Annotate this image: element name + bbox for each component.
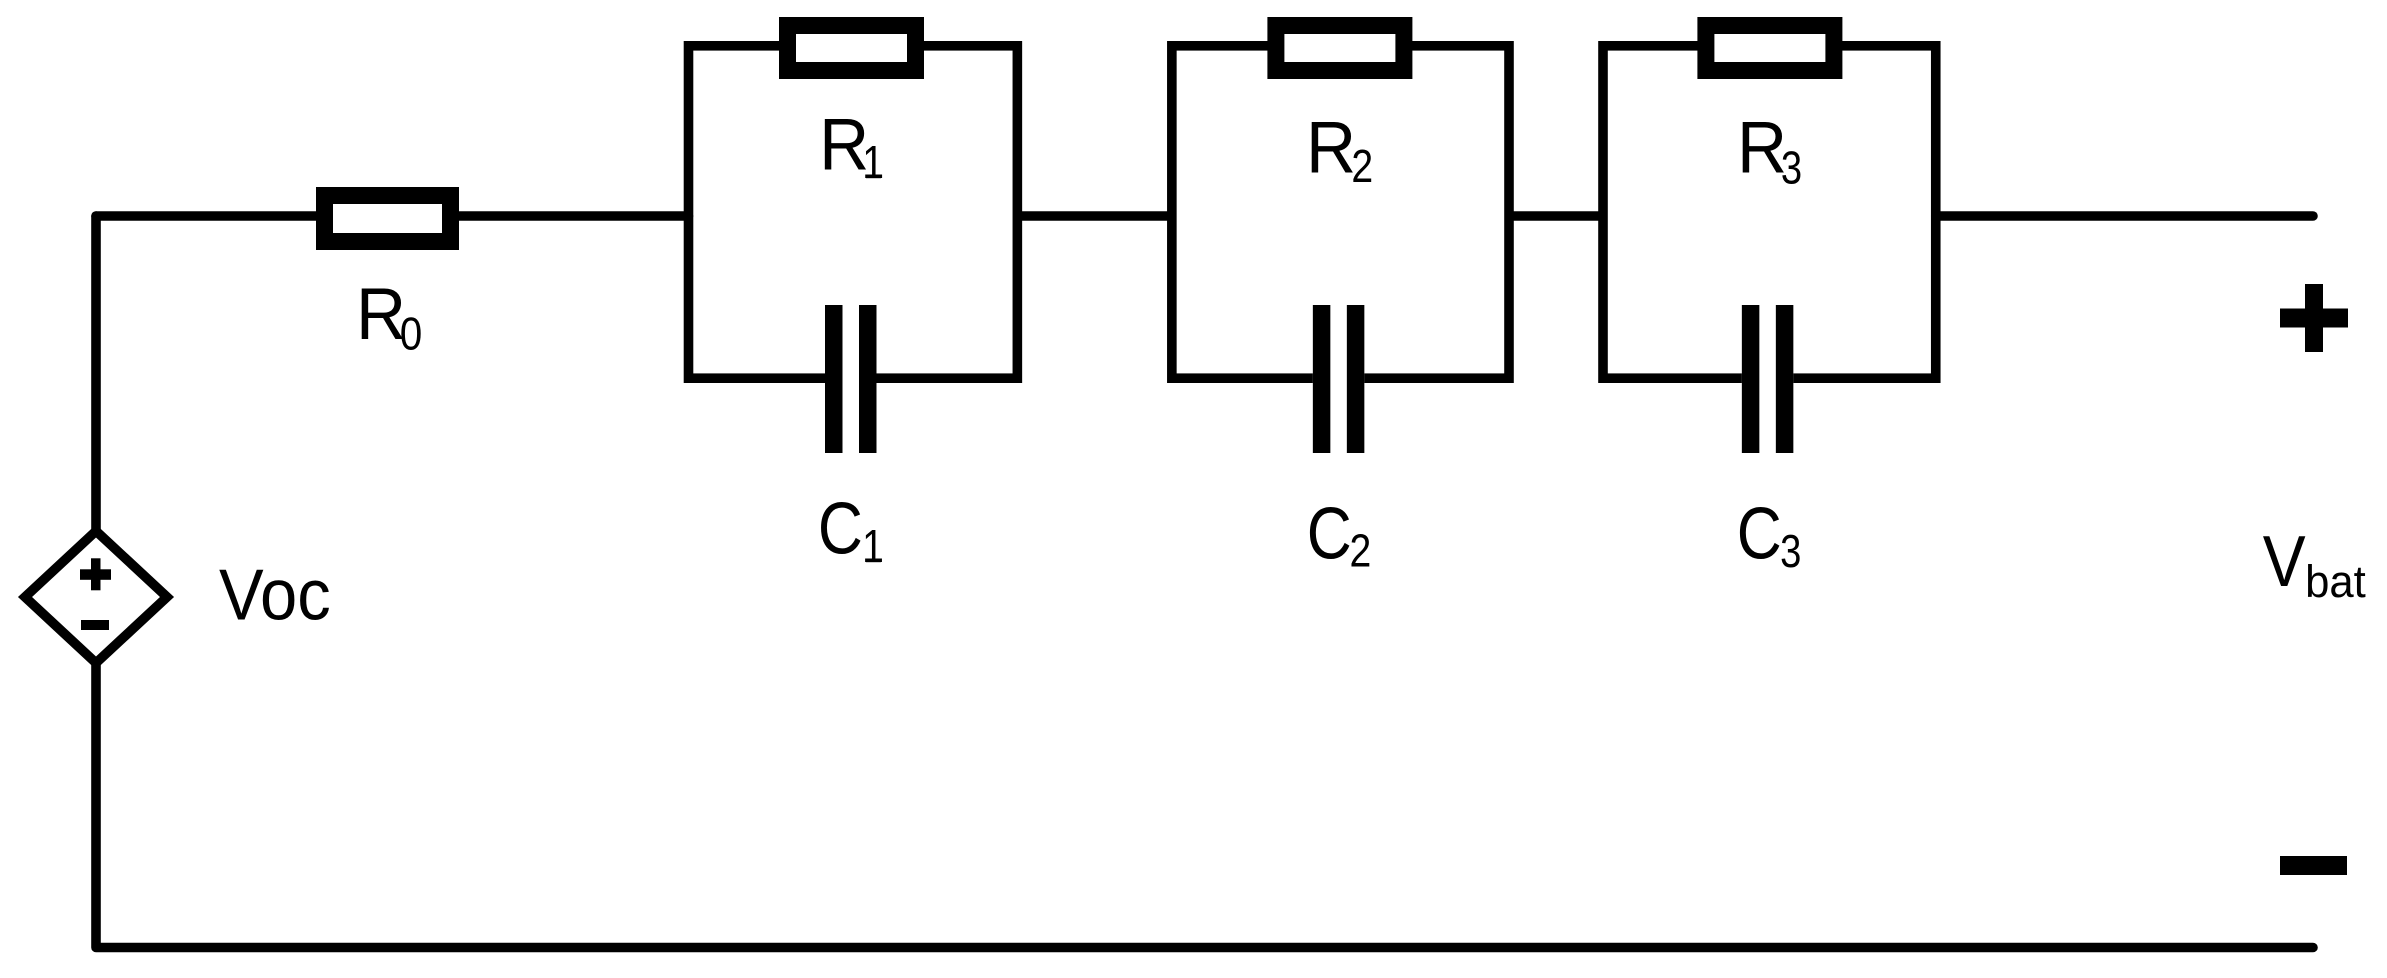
svg-text:1: 1	[862, 521, 884, 573]
svg-text:0: 0	[400, 309, 423, 360]
svg-text:V: V	[2263, 522, 2306, 602]
node loop box 2 (R2 C2 parallel)	[1172, 46, 1509, 378]
svg-text:R: R	[356, 274, 406, 355]
svg-text:C: C	[818, 489, 863, 570]
svg-text:R: R	[1306, 108, 1356, 189]
capacitor C1	[825, 369, 877, 388]
svg-text:bat: bat	[2305, 558, 2366, 608]
wire : box2 to box3	[1509, 211, 1603, 221]
resistor R1	[788, 26, 916, 71]
resistor R2	[1276, 26, 1404, 71]
svg-text:3: 3	[1781, 142, 1802, 193]
capacitor C2	[1313, 369, 1365, 388]
svg-text:C: C	[1307, 494, 1352, 575]
svg-text:2: 2	[1351, 141, 1373, 193]
resistor R0	[325, 196, 451, 242]
svg-text:R: R	[1737, 108, 1787, 189]
plus terminal mark (top right)	[2280, 309, 2348, 328]
svg-text:C: C	[1737, 494, 1782, 575]
wire : top rail from node A to box1	[96, 211, 689, 221]
node loop box 1 (R1 C1 parallel)	[689, 46, 1018, 378]
resistor R3	[1706, 26, 1834, 71]
capacitor C3	[1742, 369, 1794, 388]
minus mark inside source	[81, 620, 109, 630]
voltage source U1 Voc (diamond)	[25, 531, 167, 663]
svg-text:1: 1	[862, 137, 884, 189]
minus terminal mark (bottom right)	[2280, 856, 2347, 875]
wire : box1 to box2	[1017, 211, 1172, 221]
node loop box 3 (R3 C3 parallel)	[1603, 46, 1936, 378]
svg-text:2: 2	[1350, 526, 1372, 578]
plus mark inside source	[80, 569, 111, 580]
wire : left vertical + bottom rail	[96, 216, 2313, 948]
svg-text:3: 3	[1780, 526, 1801, 577]
wire : box3 to positive terminal	[1936, 211, 2313, 221]
svg-text:Voc: Voc	[219, 554, 331, 635]
